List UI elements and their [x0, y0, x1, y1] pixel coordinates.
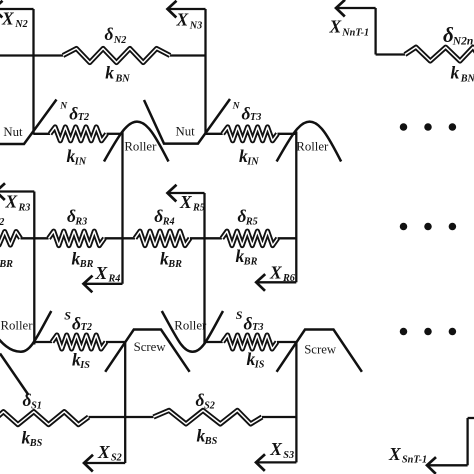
- svg-text:N2: N2: [113, 35, 126, 46]
- wire spring to screw tooth 2: [277, 341, 296, 343]
- svg-text:X: X: [269, 262, 283, 282]
- label X_R5: [179, 192, 205, 214]
- wire roller chain segment 2: [105, 237, 136, 239]
- node wire X_N3 vertical x=205.5: [204, 9, 206, 135]
- label k_IS 2: [247, 349, 265, 370]
- svg-text:BR: BR: [243, 256, 258, 267]
- arrow X_N3: [168, 1, 206, 18]
- label X_R6: [269, 262, 296, 284]
- label Roller 3: [296, 140, 329, 154]
- arrow X_R4: [84, 276, 123, 293]
- svg-text:T2: T2: [78, 112, 89, 123]
- wire screw S2 vertical x=123.7: [124, 342, 126, 464]
- wire roller chain segment 3: [190, 237, 222, 239]
- label delta_N2nT-1 (clipped): [443, 23, 474, 48]
- label delta_N2: [105, 24, 127, 46]
- label X_R3: [5, 192, 31, 214]
- wire screw chain right stub: [468, 417, 474, 419]
- label Nut 1: [3, 125, 23, 139]
- label X_SnT-1: [388, 444, 427, 466]
- label k_BR 3: [236, 246, 258, 268]
- node wire X_N2 vertical x=33.5: [32, 9, 34, 135]
- svg-text:S2: S2: [111, 453, 122, 464]
- svg-text:X: X: [1, 8, 15, 28]
- svg-text:N2: N2: [14, 19, 27, 30]
- label k_IS 1: [72, 350, 90, 371]
- svg-text:S: S: [64, 308, 71, 322]
- spring k_IS 2 (S delta_T3): [223, 335, 277, 349]
- arrow X_S3: [256, 454, 296, 471]
- wire cup2 junction to spring: [205, 341, 223, 343]
- arrow X_R6: [256, 274, 296, 291]
- svg-text:T2: T2: [81, 322, 92, 333]
- svg-text:BN: BN: [460, 73, 474, 84]
- label delta_R2 fragment: [0, 206, 4, 228]
- spring k_BR 0 (delta_R2, clipped): [0, 232, 21, 245]
- label k_BN right: [451, 63, 474, 85]
- svg-text:IN: IN: [74, 156, 87, 167]
- wire cup1 junction to spring: [34, 341, 52, 343]
- node ellipsis dots roller row: [400, 223, 456, 231]
- wire roller chain segment 4: [278, 237, 297, 239]
- screw tooth 1 profile: [105, 330, 189, 372]
- svg-text:Screw: Screw: [134, 340, 167, 354]
- label k_BS 1: [22, 428, 43, 450]
- wire screw chain segment 2: [262, 416, 296, 418]
- wire spring to screw tooth 1: [106, 341, 125, 343]
- label X_S3: [269, 439, 294, 461]
- svg-text:R6: R6: [282, 273, 296, 284]
- label Screw 1: [134, 340, 167, 354]
- spring k_BR 1 (delta_R3): [49, 231, 105, 245]
- wire spring to roller1 hump: [107, 133, 123, 135]
- svg-text:T3: T3: [250, 112, 261, 123]
- wire nut1 junction to spring: [34, 133, 51, 135]
- svg-text:k: k: [451, 63, 460, 83]
- wire X_NnT-1 vertical x=375.6: [374, 8, 376, 55]
- svg-text:BS: BS: [204, 436, 218, 447]
- label delta_R3: [67, 206, 87, 228]
- wire roller chain segment 1: [21, 237, 49, 239]
- label X_NnT-1: [329, 17, 370, 39]
- svg-text:X: X: [176, 10, 190, 30]
- wire screw S3 vertical x=296.4: [295, 342, 297, 463]
- svg-text:δ: δ: [105, 24, 114, 44]
- svg-text:R2: R2: [0, 217, 4, 228]
- svg-text:S: S: [236, 308, 243, 322]
- svg-text:R4: R4: [162, 217, 175, 228]
- svg-text:BR: BR: [79, 259, 94, 270]
- label k_BR 2: [160, 248, 182, 270]
- svg-text:Roller: Roller: [174, 318, 207, 332]
- label k_IN 1: [67, 146, 87, 167]
- svg-text:IS: IS: [254, 359, 265, 370]
- svg-text:X: X: [329, 17, 343, 37]
- svg-text:N2nT-1: N2nT-1: [452, 36, 474, 48]
- svg-text:Roller: Roller: [296, 140, 329, 154]
- spring k_IN 2 (N delta_T3): [223, 127, 278, 141]
- svg-text:N: N: [232, 102, 241, 112]
- svg-text:X: X: [269, 439, 283, 459]
- label Nut 2: [176, 125, 196, 139]
- node ellipsis dots screw row: [400, 328, 456, 336]
- svg-text:Roller: Roller: [124, 139, 157, 153]
- svg-text:BS: BS: [29, 438, 43, 449]
- label X_R4: [95, 263, 121, 285]
- wire roller R3 vertical x=34.3: [33, 192, 35, 345]
- svg-text:X: X: [5, 192, 19, 212]
- arrow X_N2 (clipped at left edge): [0, 1, 34, 18]
- svg-text:X: X: [97, 442, 111, 462]
- svg-text:S3: S3: [283, 450, 294, 461]
- label k_BS 2: [197, 426, 218, 448]
- roller 2 cup profile: [162, 311, 223, 352]
- wire nut chain right lead: [376, 53, 405, 55]
- svg-text:S2: S2: [204, 401, 215, 412]
- svg-text:BN: BN: [115, 73, 131, 84]
- svg-text:S1: S1: [31, 401, 42, 412]
- spring k_BN right (delta_N2nT-1, clipped): [405, 47, 474, 61]
- label delta_S1: [23, 390, 42, 412]
- label S delta_T3: [236, 308, 264, 333]
- spring k_BN (delta_N2): [63, 49, 170, 63]
- svg-text:NnT-1: NnT-1: [341, 27, 369, 38]
- roller 1 cup profile: [0, 311, 51, 352]
- svg-text:BR: BR: [0, 259, 13, 270]
- svg-text:Roller: Roller: [1, 318, 34, 332]
- spring k_BR 3 (delta_R5): [222, 231, 278, 245]
- wire roller R6 vertical x=296.3: [295, 132, 297, 283]
- label k_BR 1: [72, 248, 94, 270]
- svg-text:R5: R5: [245, 217, 258, 228]
- label X_N3: [176, 10, 203, 32]
- spring k_BR 2 (delta_R4): [135, 231, 190, 245]
- nut tooth 1 profile: [0, 100, 57, 145]
- node ellipsis dots nut row: [400, 123, 456, 131]
- arrow X_R3 (clipped at left edge): [0, 183, 34, 200]
- label S delta_T2: [64, 308, 92, 333]
- label delta_S2: [196, 390, 215, 412]
- wire nut2 junction to spring: [206, 133, 223, 135]
- label N delta_T2: [59, 102, 89, 124]
- wire screw chain segment 1: [89, 416, 154, 418]
- label delta_R5: [238, 206, 258, 228]
- roller 3 hump profile: [277, 122, 342, 162]
- label Screw 2: [304, 343, 337, 357]
- nut tooth 2 profile: [144, 99, 230, 144]
- arrow X_SnT-1: [427, 457, 468, 474]
- svg-text:N: N: [59, 102, 68, 112]
- svg-text:X: X: [388, 444, 402, 464]
- arrow X_S2: [84, 455, 125, 472]
- spring k_BS 1 (delta_S1, clipped): [0, 412, 89, 425]
- arrow X_NnT-1: [336, 0, 376, 17]
- label k_BR 0 fragment: [0, 248, 13, 270]
- wire nut chain left, y=55.5: [0, 54, 206, 56]
- arrow X_R5: [168, 185, 205, 202]
- spring k_BS 2 (delta_S2): [154, 410, 263, 424]
- svg-text:R5: R5: [192, 203, 205, 214]
- svg-text:Screw: Screw: [304, 343, 337, 357]
- spring k_IS 1 (S delta_T2): [52, 335, 106, 349]
- svg-text:Nut: Nut: [176, 125, 196, 139]
- svg-text:R4: R4: [108, 274, 121, 285]
- screw tooth 0 fragment (clipped): [0, 354, 29, 396]
- svg-text:N3: N3: [189, 20, 202, 31]
- svg-text:R3: R3: [74, 217, 87, 228]
- label Roller cup 1: [1, 318, 34, 332]
- label N delta_T3: [232, 102, 262, 124]
- wire X_SnT-1 vertical x=467.6: [466, 418, 468, 465]
- label Roller 1: [124, 139, 157, 153]
- spring k_IN 1 (N delta_T2): [50, 127, 107, 141]
- roller 1 hump profile: [104, 122, 169, 162]
- svg-text:IN: IN: [246, 156, 259, 167]
- screw tooth 2 profile: [277, 330, 362, 372]
- label Roller cup 2: [174, 318, 207, 332]
- label k_IN 2: [239, 146, 259, 167]
- svg-text:X: X: [179, 192, 193, 212]
- svg-text:BR: BR: [167, 259, 182, 270]
- label X_N2: [1, 8, 28, 30]
- svg-text:X: X: [95, 263, 109, 283]
- wire roller R5 vertical x=204.5: [203, 193, 205, 345]
- label delta_R4: [154, 206, 174, 228]
- wire spring to roller3 hump: [278, 133, 297, 135]
- label k_BN: [105, 63, 130, 85]
- svg-text:IS: IS: [79, 360, 90, 371]
- svg-text:k: k: [105, 63, 114, 83]
- svg-text:SnT-1: SnT-1: [402, 455, 427, 466]
- label X_S2: [97, 442, 122, 464]
- wire roller R4 vertical x=122.5: [121, 132, 123, 284]
- svg-text:Nut: Nut: [3, 125, 23, 139]
- svg-text:T3: T3: [252, 322, 263, 333]
- svg-text:R3: R3: [18, 202, 31, 213]
